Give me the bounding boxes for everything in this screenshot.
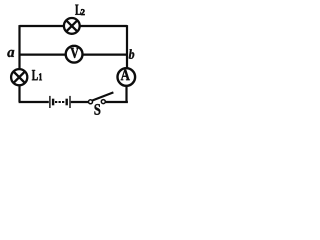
wire bottom right (switch to corner) (105, 101, 128, 103)
battery cell 2 short plate (65, 99, 67, 106)
wire middle branch a to b (20, 53, 128, 55)
switch S right contact (101, 100, 105, 104)
voltmeter V letter (71, 48, 79, 58)
switch S lever (92, 92, 113, 100)
voltmeter V (66, 46, 83, 63)
battery cell 1 long plate (49, 96, 51, 108)
label L1 letter L (32, 70, 38, 80)
wire right vertical lower (ammeter to bottom corner) (125, 86, 127, 102)
wire top: left corner to right corner through lamp L2 (20, 25, 128, 27)
wire right vertical (top corner to node b to ammeter) (126, 25, 128, 69)
ammeter A (118, 68, 136, 86)
label L2 letter L (75, 5, 81, 15)
battery cell 2 long plate (69, 96, 71, 108)
node b label (129, 49, 134, 59)
switch S label (95, 104, 101, 115)
lamp L2 (64, 18, 80, 34)
switch S left contact (89, 100, 93, 104)
wire battery to switch (71, 101, 89, 103)
battery dashed link (55, 101, 64, 103)
wire left vertical (top corner to node a to lamp L1) (18, 25, 20, 69)
wire bottom left (corner to battery) (19, 101, 49, 103)
lamp L1 (11, 69, 27, 85)
label L2 subscript 2 (81, 9, 85, 15)
node a label (7, 50, 14, 57)
label L1 subscript 1 (39, 73, 42, 80)
battery cell 1 short plate (52, 99, 54, 106)
ammeter A letter (121, 70, 130, 80)
wire left vertical lower (lamp L1 to bottom corner) (18, 86, 20, 102)
